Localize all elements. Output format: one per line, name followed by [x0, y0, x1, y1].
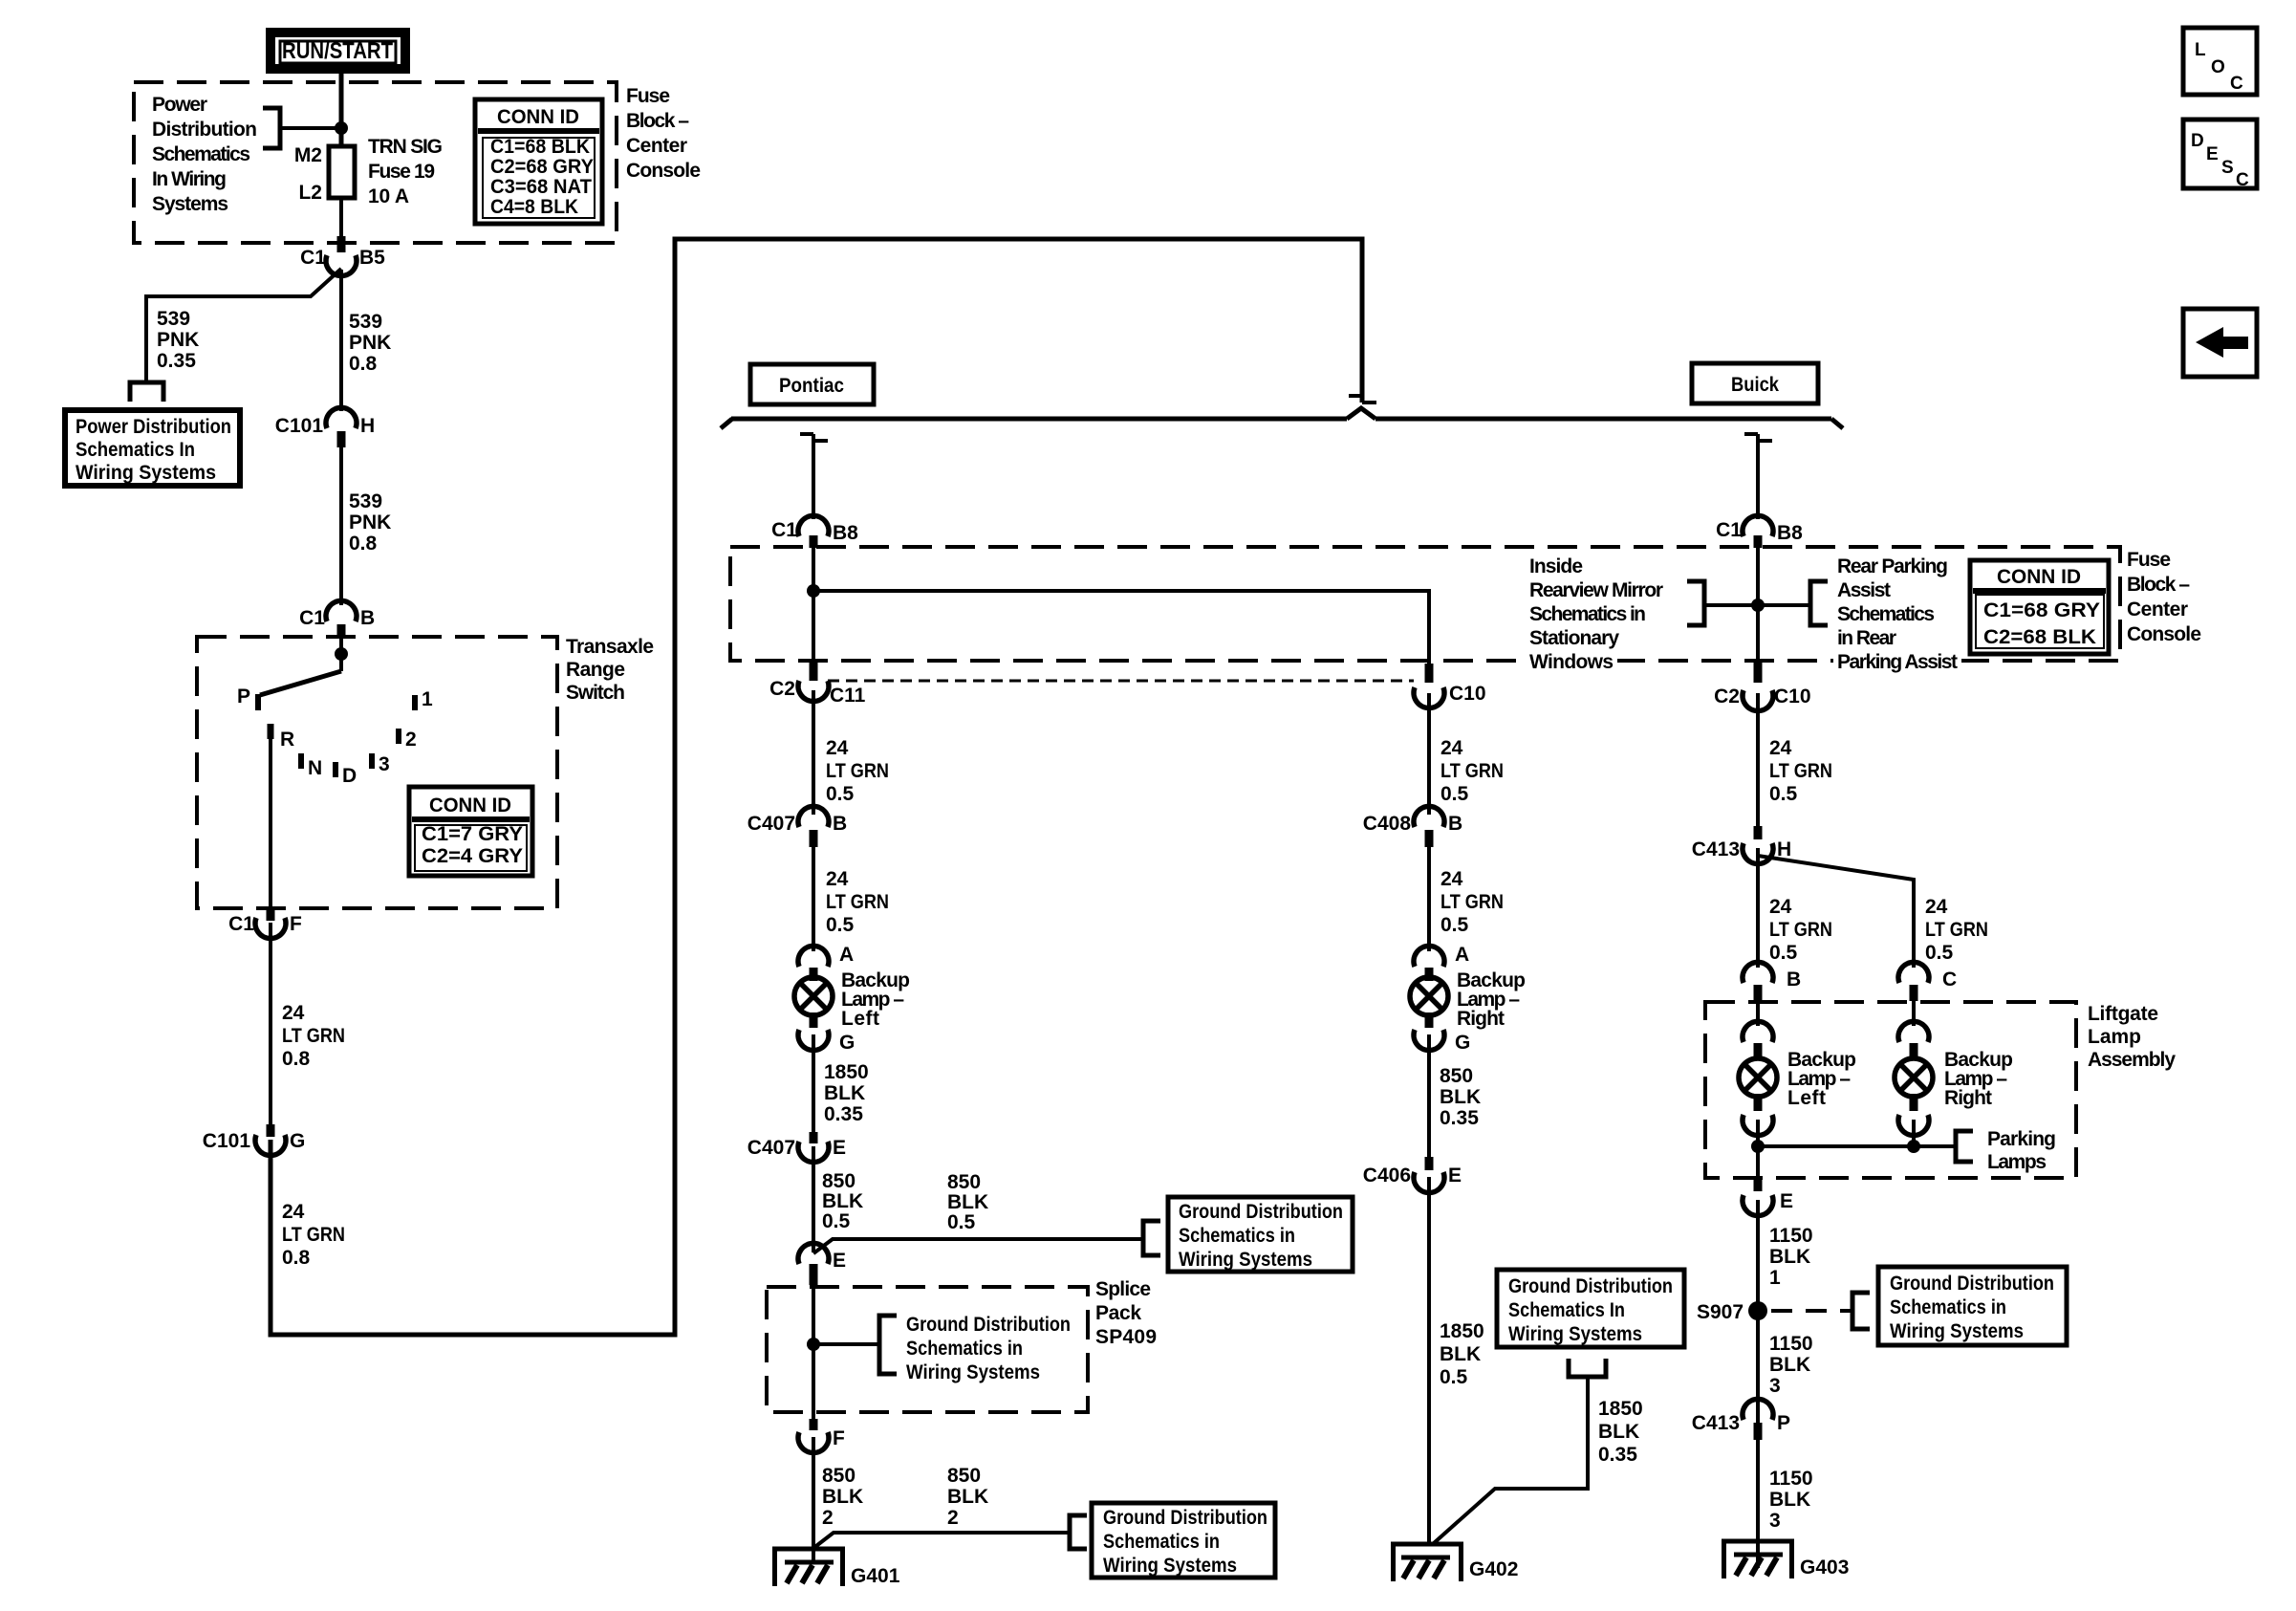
svg-text:BLK: BLK: [822, 1486, 863, 1508]
svg-text:850: 850: [947, 1171, 981, 1193]
svg-text:BLK: BLK: [1440, 1343, 1481, 1365]
svg-text:Schematics: Schematics: [152, 143, 250, 165]
svg-text:Ground Distribution: Ground Distribution: [1890, 1273, 2054, 1295]
wire bus to C1/B8 (Buick): [1756, 434, 1760, 519]
splice terminal F: [798, 1419, 845, 1453]
wire junction to rearview/C10 drop: [813, 591, 1429, 664]
svg-text:2: 2: [947, 1507, 959, 1529]
junction node (Pontiac console): [807, 584, 820, 598]
svg-text:BLK: BLK: [824, 1082, 865, 1104]
wire C1/B5 branch to power distribution box: [146, 269, 341, 382]
label 539 PNK 0.8 (second): [349, 490, 391, 555]
svg-text:1: 1: [422, 688, 433, 710]
svg-text:Systems: Systems: [152, 193, 228, 215]
svg-text:Center: Center: [626, 135, 687, 157]
svg-text:Fuse: Fuse: [626, 85, 670, 107]
svg-text:0.5: 0.5: [1925, 942, 1954, 964]
ignition feed box RUN/START: [271, 33, 405, 69]
svg-text:LT GRN: LT GRN: [1440, 891, 1504, 913]
svg-text:0.35: 0.35: [824, 1103, 863, 1125]
label 24 LT GRN 0.5 (Pontiac upper): [826, 737, 889, 805]
svg-text:539: 539: [157, 308, 190, 330]
splice junction node SP409: [807, 1338, 820, 1351]
svg-text:G402: G402: [1469, 1558, 1518, 1580]
svg-text:Parking Assist: Parking Assist: [1837, 651, 1958, 673]
svg-text:E: E: [1780, 1190, 1793, 1212]
svg-text:G: G: [290, 1130, 305, 1152]
svg-text:BLK: BLK: [1769, 1246, 1810, 1268]
svg-text:Fuse: Fuse: [2127, 549, 2171, 571]
svg-text:539: 539: [349, 311, 382, 333]
svg-text:Power: Power: [152, 94, 207, 116]
label 24 LT GRN 0.8: [282, 1002, 345, 1070]
svg-text:Switch: Switch: [566, 682, 625, 704]
svg-text:Wiring Systems: Wiring Systems: [1179, 1249, 1312, 1271]
backup lamp - left (Pontiac): [794, 977, 833, 1015]
svg-text:BLK: BLK: [947, 1486, 988, 1508]
wire C413/H to lamp B: [1756, 848, 1760, 968]
svg-text:24: 24: [826, 737, 849, 759]
fuse TRN SIG Fuse 19 10 A (M2/L2): [329, 146, 355, 198]
bracket below ground distribution box 3: [1569, 1359, 1606, 1377]
svg-text:PNK: PNK: [157, 329, 199, 351]
svg-text:SP409: SP409: [1095, 1326, 1157, 1348]
wire C101/H to C1/B: [339, 446, 343, 605]
connector C413/P: [1692, 1399, 1790, 1440]
label Transaxle Range Switch: [566, 636, 654, 704]
label 1150 BLK 1: [1769, 1225, 1813, 1289]
svg-text:A: A: [839, 944, 854, 966]
svg-text:Center: Center: [2127, 599, 2188, 620]
reference text: Power Distribution Schematics In Wiring Systems: [152, 94, 257, 215]
svg-text:C413: C413: [1692, 838, 1740, 860]
svg-text:PNK: PNK: [349, 332, 391, 354]
svg-text:0.8: 0.8: [349, 353, 378, 375]
svg-text:Rearview Mirror: Rearview Mirror: [1529, 579, 1663, 601]
svg-text:Schematics in: Schematics in: [906, 1338, 1023, 1360]
svg-text:1150: 1150: [1769, 1225, 1813, 1247]
svg-text:Rear Parking: Rear Parking: [1837, 555, 1948, 577]
svg-text:O: O: [2211, 57, 2225, 77]
svg-text:C2=68 GRY: C2=68 GRY: [490, 156, 594, 178]
reference text: Rear Parking Assist Schematics in Rear Parking Assist: [1833, 555, 1961, 673]
svg-text:1150: 1150: [1769, 1333, 1813, 1355]
wire C407/B to lamp A (Pontiac): [812, 845, 815, 951]
svg-text:B8: B8: [1777, 522, 1803, 544]
svg-text:C3=68 NAT: C3=68 NAT: [490, 176, 592, 198]
lamp socket cup right (Buick): [1898, 1094, 1929, 1136]
svg-text:LT GRN: LT GRN: [826, 760, 889, 782]
svg-text:Parking: Parking: [1987, 1128, 2056, 1150]
svg-text:Schematics In: Schematics In: [1508, 1299, 1625, 1321]
connector C1/B5: [300, 236, 385, 276]
wire bracket to fuse node: [280, 126, 341, 130]
wire C407/E to splice E: [812, 1146, 815, 1252]
label Splice Pack SP409: [1095, 1278, 1157, 1348]
svg-text:24: 24: [1440, 737, 1463, 759]
svg-text:Windows: Windows: [1529, 651, 1614, 673]
label Backup Lamp - Left (Buick): [1787, 1049, 1856, 1109]
label 539 PNK 0.8: [349, 311, 391, 375]
routing wire C101/G around left side up to bus feed: [271, 239, 1362, 1335]
svg-text:C2: C2: [769, 678, 795, 700]
svg-text:C407: C407: [747, 813, 795, 835]
svg-text:0.35: 0.35: [1440, 1107, 1479, 1129]
svg-text:Schematics in: Schematics in: [1179, 1225, 1295, 1247]
wire bus to C1/B8 (Pontiac): [812, 434, 815, 519]
bracket to ground distribution box 4: [1852, 1293, 1870, 1329]
label Backup Lamp - Right (Buick): [1944, 1049, 2013, 1109]
svg-text:LT GRN: LT GRN: [826, 891, 889, 913]
ground G403: [1724, 1541, 1850, 1578]
wire C1/B8 into console box (Pontiac): [812, 548, 815, 662]
svg-text:Left: Left: [1787, 1087, 1826, 1109]
svg-text:Right: Right: [1944, 1087, 1992, 1109]
svg-text:C101: C101: [203, 1130, 251, 1152]
svg-text:0.5: 0.5: [1769, 783, 1798, 805]
wire C1/B5 to C101/H: [339, 270, 343, 411]
wire B into lamp assembly: [1756, 999, 1760, 1026]
svg-text:Ground Distribution: Ground Distribution: [1508, 1275, 1673, 1297]
label Backup Lamp - Left (Pontiac): [841, 969, 910, 1030]
label 1150 BLK 3: [1769, 1333, 1813, 1397]
connector C2/C11: [769, 678, 866, 707]
svg-text:10 A: 10 A: [368, 185, 409, 207]
svg-text:3: 3: [1769, 1375, 1781, 1397]
lamp terminal G (middle): [1414, 1012, 1470, 1054]
wire R contact to C1/F: [269, 736, 272, 910]
svg-text:LT GRN: LT GRN: [1769, 919, 1832, 941]
bracket to rear parking assist reference: [1810, 581, 1828, 625]
CONN ID table (center console): [1970, 560, 2109, 654]
svg-text:24: 24: [1769, 737, 1792, 759]
svg-text:G401: G401: [851, 1565, 900, 1587]
svg-text:Wiring Systems: Wiring Systems: [1508, 1323, 1642, 1345]
svg-text:Wiring Systems: Wiring Systems: [1890, 1320, 2024, 1342]
wire C1/F to C101/G: [269, 923, 272, 1126]
svg-text:in Rear: in Rear: [1837, 627, 1896, 649]
svg-text:G: G: [839, 1032, 855, 1054]
Buick drop break jog: [1744, 434, 1772, 441]
junction node (Buick console): [1751, 599, 1765, 612]
svg-text:PNK: PNK: [349, 512, 391, 533]
label Liftgate Lamp Assembly: [2088, 1003, 2176, 1071]
svg-text:Wiring Systems: Wiring Systems: [76, 462, 216, 484]
svg-text:C2: C2: [1714, 686, 1740, 708]
wire lamp G to C406/E: [1427, 1034, 1431, 1159]
label 850 BLK 0.5 (branch): [947, 1171, 988, 1233]
svg-text:0.5: 0.5: [1769, 942, 1798, 964]
bracket to power distribution reference: [263, 108, 280, 148]
CONN ID table (fuse block): [475, 99, 602, 224]
svg-text:C1: C1: [299, 607, 325, 629]
fuse block dashed box (Fuse Block - Center Console): [134, 82, 617, 243]
switch contact 1: [412, 695, 418, 710]
svg-text:B: B: [360, 607, 375, 629]
svg-text:0.5: 0.5: [947, 1211, 976, 1233]
back arrow box: [2183, 309, 2257, 377]
wire C408/B to lamp A (middle): [1427, 845, 1431, 951]
lamp terminal A (middle): [1414, 944, 1469, 981]
svg-text:0.5: 0.5: [1440, 783, 1469, 805]
svg-text:S907: S907: [1697, 1301, 1744, 1323]
svg-text:D: D: [2191, 131, 2204, 151]
svg-text:C11: C11: [830, 685, 866, 707]
svg-text:0.8: 0.8: [282, 1247, 311, 1269]
svg-text:1150: 1150: [1769, 1468, 1813, 1490]
power distribution reference box: [65, 410, 240, 486]
switch wiper arm to P: [260, 671, 341, 695]
svg-text:F: F: [290, 913, 302, 935]
svg-text:24: 24: [1440, 868, 1463, 890]
lamp terminal G (Pontiac): [798, 1012, 855, 1054]
wire branch C413/H to lamp C: [1758, 856, 1914, 968]
connector stub C10 (middle): [1425, 664, 1434, 683]
svg-text:24: 24: [826, 868, 849, 890]
svg-text:LT GRN: LT GRN: [1925, 919, 1988, 941]
svg-text:BLK: BLK: [1598, 1421, 1639, 1443]
ground distribution reference box 2: [1092, 1503, 1275, 1578]
bracket above power distribution box: [130, 382, 163, 402]
svg-text:LT GRN: LT GRN: [282, 1224, 345, 1246]
svg-text:Schematics in: Schematics in: [1890, 1296, 2006, 1318]
svg-text:L2: L2: [298, 182, 322, 204]
wire F to ground G401: [812, 1437, 815, 1562]
svg-text:0.35: 0.35: [157, 350, 196, 372]
svg-text:C1: C1: [771, 519, 797, 541]
svg-text:C2=4 GRY: C2=4 GRY: [422, 845, 523, 867]
svg-text:C2=68 BLK: C2=68 BLK: [1983, 626, 2096, 648]
splice S907: [1697, 1301, 1767, 1323]
svg-text:Lamp: Lamp: [2088, 1026, 2141, 1048]
bracket to parking lamps: [1956, 1131, 1973, 1162]
connector C1/B8 (Pontiac): [771, 515, 858, 548]
label 24 LT GRN 0.5 (Buick left): [1769, 896, 1832, 964]
splice pack SP409 dashed box: [767, 1287, 1088, 1412]
wire ground distribution to G402: [1434, 1377, 1588, 1543]
svg-text:C1: C1: [228, 913, 254, 935]
svg-text:Wiring Systems: Wiring Systems: [1103, 1555, 1237, 1577]
connector C408/B: [1363, 806, 1462, 847]
svg-text:Transaxle: Transaxle: [566, 636, 654, 658]
ground distribution reference box 4: [1878, 1267, 2067, 1345]
label Backup Lamp - Right (middle): [1457, 969, 1526, 1030]
svg-text:24: 24: [282, 1201, 305, 1223]
svg-text:C1=68 BLK: C1=68 BLK: [490, 136, 590, 158]
ground G402: [1394, 1544, 1519, 1581]
switch contact 3: [369, 753, 375, 769]
svg-text:B8: B8: [833, 522, 858, 544]
wire junction to reference brackets: [1704, 603, 1810, 607]
svg-text:Schematics: Schematics: [1837, 603, 1935, 625]
svg-text:C1=7 GRY: C1=7 GRY: [422, 823, 523, 845]
lamp socket cup left (Buick): [1743, 1094, 1773, 1136]
svg-text:Buick: Buick: [1731, 374, 1779, 396]
parking lamps tie wire: [1756, 1120, 1760, 1178]
svg-text:Distribution: Distribution: [152, 119, 257, 141]
label 24 LT GRN 0.5 (middle lower): [1440, 868, 1504, 936]
svg-text:C1: C1: [300, 247, 326, 269]
svg-text:850: 850: [947, 1465, 981, 1487]
ground distribution reference box 1: [1168, 1197, 1353, 1272]
label 24 LT GRN 0.5 (Buick right): [1925, 896, 1988, 964]
svg-text:C413: C413: [1692, 1412, 1740, 1434]
svg-text:Ground Distribution: Ground Distribution: [906, 1314, 1071, 1336]
svg-text:D: D: [342, 765, 357, 787]
wire E to S907: [1756, 1200, 1760, 1425]
connector C101/G: [203, 1124, 306, 1156]
svg-text:BLK: BLK: [822, 1190, 863, 1212]
svg-text:C10: C10: [1449, 683, 1486, 705]
svg-text:1850: 1850: [1598, 1398, 1643, 1420]
bracket to rearview mirror reference: [1687, 581, 1704, 625]
svg-text:850: 850: [822, 1170, 856, 1192]
svg-text:G403: G403: [1800, 1557, 1849, 1578]
wire C406/E to ground G402: [1427, 1177, 1431, 1546]
svg-text:C1=68 GRY: C1=68 GRY: [1983, 599, 2100, 621]
svg-text:G: G: [1455, 1032, 1470, 1054]
svg-text:0.5: 0.5: [826, 783, 855, 805]
connector C10 (middle): [1414, 683, 1486, 708]
wire lamp G to C407/E: [812, 1034, 815, 1134]
svg-text:C: C: [1942, 969, 1957, 991]
connector C1/F: [228, 908, 302, 939]
wire through splice pack: [812, 1285, 815, 1421]
svg-text:2: 2: [822, 1507, 834, 1529]
svg-text:H: H: [360, 415, 375, 437]
svg-text:0.5: 0.5: [1440, 914, 1469, 936]
svg-text:A: A: [1455, 944, 1469, 966]
wire C413/P to ground G403: [1756, 1438, 1760, 1568]
svg-text:Ground Distribution: Ground Distribution: [1103, 1507, 1267, 1529]
svg-text:B: B: [833, 813, 847, 835]
connector C407/B: [747, 806, 847, 847]
svg-text:0.5: 0.5: [1440, 1366, 1468, 1388]
svg-text:TRN SIG: TRN SIG: [368, 136, 443, 158]
liftgate terminal B: [1743, 962, 1801, 1001]
svg-text:BLK: BLK: [1440, 1086, 1481, 1108]
splice terminal E: [798, 1243, 846, 1285]
svg-text:Assembly: Assembly: [2088, 1049, 2176, 1071]
svg-text:E: E: [833, 1137, 846, 1159]
reference text: Inside Rearview Mirror Schematics in Stationary Windows: [1526, 555, 1663, 673]
switch contact P: [255, 694, 261, 710]
svg-text:24: 24: [282, 1002, 305, 1024]
svg-text:1850: 1850: [824, 1061, 869, 1083]
svg-text:RUN/START: RUN/START: [282, 38, 393, 64]
svg-text:Pontiac: Pontiac: [779, 375, 844, 397]
DESC index box: [2183, 120, 2257, 190]
svg-text:Console: Console: [626, 160, 701, 182]
svg-text:Block –: Block –: [2127, 574, 2190, 596]
svg-text:F: F: [833, 1427, 845, 1449]
connector gang dotted line C11 to C10: [828, 680, 1414, 683]
connector C406/E: [1363, 1157, 1462, 1193]
svg-text:Inside: Inside: [1529, 555, 1583, 577]
harness bus line (Pontiac/Buick): [721, 408, 1843, 428]
ground distribution reference text (splice): [906, 1314, 1071, 1383]
svg-text:Schematics In: Schematics In: [76, 439, 195, 461]
svg-text:2: 2: [405, 729, 417, 751]
Buick label box: [1692, 363, 1818, 403]
svg-text:24: 24: [1769, 896, 1792, 918]
svg-text:3: 3: [1769, 1510, 1781, 1532]
connector C407/E: [747, 1132, 846, 1163]
svg-text:0.35: 0.35: [1598, 1444, 1637, 1466]
label 24 LT GRN 0.8 (second): [282, 1201, 345, 1269]
svg-text:0.5: 0.5: [822, 1210, 851, 1232]
transaxle range switch dashed box: [197, 637, 557, 908]
wire fuse to C1/B5: [339, 198, 343, 239]
svg-text:Liftgate: Liftgate: [2088, 1003, 2158, 1025]
svg-text:Power Distribution: Power Distribution: [76, 416, 231, 438]
svg-text:P: P: [237, 686, 250, 708]
label 1850 BLK 0.5 (middle): [1440, 1320, 1484, 1388]
connector C413/H: [1692, 826, 1791, 864]
bracket to ground distribution box 2: [1070, 1515, 1087, 1549]
label 850 BLK 0.5: [822, 1170, 863, 1232]
lamp socket arc right (Buick): [1898, 1021, 1929, 1058]
liftgate terminal E: [1743, 1178, 1793, 1216]
svg-text:Left: Left: [841, 1008, 879, 1030]
svg-text:Splice: Splice: [1095, 1278, 1151, 1300]
liftgate lamp assembly dashed box: [1705, 1002, 2076, 1178]
switch contact D: [333, 762, 338, 777]
svg-text:1850: 1850: [1440, 1320, 1484, 1342]
svg-text:CONN ID: CONN ID: [497, 106, 579, 128]
wire branch to ground distribution reference: [813, 1239, 1143, 1253]
svg-text:850: 850: [1440, 1065, 1473, 1087]
label Parking Lamps: [1987, 1128, 2056, 1173]
wire break jog at bus feed: [1349, 396, 1376, 403]
svg-text:C407: C407: [747, 1137, 795, 1159]
svg-text:LT GRN: LT GRN: [282, 1025, 345, 1047]
svg-text:Assist: Assist: [1837, 579, 1891, 601]
svg-text:CONN ID: CONN ID: [429, 795, 511, 816]
svg-text:Lamps: Lamps: [1987, 1151, 2047, 1173]
wire C2/C10 to C413/H: [1756, 693, 1760, 828]
svg-text:24: 24: [1925, 896, 1948, 918]
svg-text:BLK: BLK: [1769, 1489, 1810, 1511]
Pontiac drop break jog: [800, 434, 828, 441]
svg-text:Pack: Pack: [1095, 1302, 1141, 1324]
svg-text:B5: B5: [359, 247, 385, 269]
svg-text:C4=8 BLK: C4=8 BLK: [490, 196, 578, 218]
label 539 PNK 0.35: [157, 308, 199, 372]
svg-text:LT GRN: LT GRN: [1440, 760, 1504, 782]
svg-text:C1: C1: [1716, 519, 1742, 541]
svg-text:C408: C408: [1363, 813, 1412, 835]
svg-text:BLK: BLK: [947, 1191, 988, 1213]
svg-text:E: E: [1448, 1165, 1462, 1186]
junction node at fuse top: [335, 121, 348, 135]
lamp socket arc left (Buick): [1743, 1021, 1773, 1058]
svg-text:Range: Range: [566, 659, 625, 681]
svg-text:P: P: [1777, 1412, 1790, 1434]
svg-text:C101: C101: [275, 415, 324, 437]
svg-text:Fuse 19: Fuse 19: [368, 161, 435, 183]
svg-text:M2: M2: [294, 144, 322, 166]
svg-text:C: C: [2236, 170, 2249, 190]
svg-text:0.8: 0.8: [282, 1048, 311, 1070]
label 1150 BLK 3 (second): [1769, 1468, 1813, 1532]
switch contact 2: [396, 729, 401, 744]
wire C10 to C408/B: [1427, 693, 1431, 815]
backup lamp - left (Buick): [1739, 1058, 1777, 1097]
connector C1/B8 (Buick): [1716, 515, 1803, 548]
svg-text:3: 3: [379, 753, 390, 775]
label 850 BLK 2 (branch): [947, 1465, 988, 1529]
